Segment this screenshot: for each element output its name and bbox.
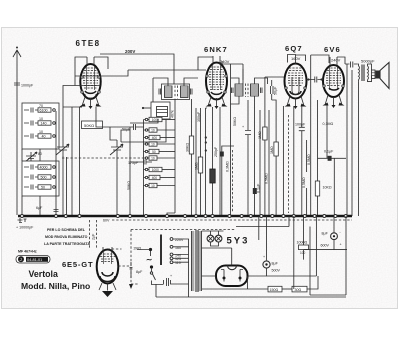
- svg-text:600V: 600V: [321, 244, 330, 248]
- wire right verticals below bus: [294, 216, 317, 289]
- T1 secondary coil: [181, 86, 189, 98]
- svg-text:0,5MΩ: 0,5MΩ: [307, 154, 311, 165]
- svg-text:MF 467×Hz: MF 467×Hz: [18, 250, 37, 254]
- capacitor/resistor row 10: [24, 121, 38, 126]
- wire x293.8: [293, 106, 295, 215]
- wire T1 leads: [153, 78, 198, 86]
- svg-text:50μF: 50μF: [274, 86, 278, 95]
- dashed wire x288.5: [288, 115, 290, 213]
- svg-text:04-81-01: 04-81-01: [27, 258, 42, 262]
- svg-text:0,3MΩ: 0,3MΩ: [226, 161, 230, 172]
- tube V3 base pins: [287, 96, 304, 107]
- svg-text:400: 400: [152, 176, 158, 180]
- svg-text:8μF: 8μF: [322, 232, 329, 236]
- wire x221 capacitor square: [222, 146, 234, 215]
- T2 core: [246, 84, 249, 98]
- svg-text:6E5-GT: 6E5-GT: [62, 260, 93, 269]
- dashed wire x232: [232, 150, 234, 213]
- svg-text:6NK7: 6NK7: [204, 45, 228, 54]
- svg-text:PER LO SCHEMA DEL: PER LO SCHEMA DEL: [47, 228, 86, 232]
- dashed gang link: [62, 157, 143, 159]
- svg-text:0,5MΩ: 0,5MΩ: [302, 177, 306, 188]
- svg-text:+: +: [170, 274, 172, 278]
- wire switch rail: [55, 111, 58, 215]
- capacitor/resistor row 4000: [24, 165, 38, 170]
- dashed mains box: [131, 230, 236, 285]
- resistor ladder row 10 y185.5: [145, 184, 147, 186]
- band switch coil box lower: [22, 161, 59, 196]
- svg-text:100pF: 100pF: [295, 123, 306, 127]
- svg-text:250pF: 250pF: [214, 146, 218, 157]
- tube V1 internals: [83, 68, 98, 88]
- svg-text:50KΩ: 50KΩ: [84, 123, 94, 128]
- tuning gang section 1: [56, 143, 69, 157]
- junction dot: [149, 248, 152, 251]
- ground symbol left: [18, 218, 27, 223]
- wire 50pF node: [110, 127, 130, 215]
- tube V5 6E5-GT envelope: [97, 250, 119, 284]
- filter capacitor 8uF 500V: [263, 261, 270, 268]
- wire left outer: [16, 125, 18, 215]
- wire V1 grid to gang: [96, 107, 117, 140]
- oscillator coil box: [151, 102, 170, 119]
- wire x301.8 with capacitor 100pF: [299, 106, 305, 215]
- tube V1 base pins: [82, 97, 99, 107]
- svg-text:4000: 4000: [40, 166, 48, 170]
- wire V1 pin down: [63, 107, 82, 215]
- dashed box arrow: [129, 284, 133, 289]
- bus junction circles: [21, 215, 24, 218]
- V6 top dimple: [228, 266, 237, 270]
- wire V2 top: [198, 57, 222, 70]
- svg-text:LA PARTE TRATTEGGIATA: LA PARTE TRATTEGGIATA: [44, 242, 90, 246]
- output transformer primary: [358, 66, 361, 80]
- bottom long wire: [156, 296, 346, 298]
- antenna: [16, 57, 18, 125]
- tube V3 6Q7 envelope: [285, 64, 307, 99]
- capacitor 175pF: [144, 160, 146, 165]
- svg-text:MOD RNOVA ELIMINATO: MOD RNOVA ELIMINATO: [45, 235, 88, 239]
- svg-text:J: J: [20, 257, 22, 262]
- svg-text:0,1MΩ: 0,1MΩ: [323, 122, 334, 126]
- svg-text:60V: 60V: [103, 219, 110, 223]
- pilot lamp 1: [207, 235, 214, 242]
- resistor 150 Ohm: [202, 276, 268, 289]
- svg-text:50: 50: [152, 150, 156, 154]
- svg-text:10: 10: [151, 128, 155, 132]
- T1 trim capacitors: [159, 89, 192, 95]
- tube V2 6NK7 envelope: [206, 63, 227, 100]
- svg-text:500V: 500V: [272, 269, 281, 273]
- wire x196: [195, 108, 197, 215]
- wire x260: [259, 110, 261, 215]
- svg-text:30Ω: 30Ω: [295, 288, 302, 292]
- T1 core: [175, 86, 178, 99]
- resistor ladder row 50 y151.5: [145, 150, 147, 152]
- svg-text:10: 10: [39, 130, 43, 134]
- tube V4 base pins: [325, 95, 342, 106]
- wire ladder left rail: [144, 120, 146, 216]
- wire x205.5: [206, 108, 208, 215]
- wire 50uF down: [272, 100, 276, 215]
- wire 240V drop to V2: [219, 64, 243, 215]
- svg-text:5Y3: 5Y3: [227, 236, 250, 247]
- svg-text:1MΩ: 1MΩ: [194, 162, 198, 170]
- V6 internals: [221, 270, 243, 282]
- wire x312: [310, 55, 312, 215]
- svg-text:+: +: [242, 125, 244, 129]
- tube V1 6TE8 envelope: [80, 64, 100, 99]
- wire 175pF node: [130, 161, 152, 163]
- wire x200.5 with resistor 1M: [200, 108, 202, 215]
- right side vertical wires: [347, 64, 359, 216]
- svg-text:1MΩ: 1MΩ: [258, 131, 262, 139]
- svg-text:1000Ω: 1000Ω: [297, 241, 308, 245]
- wire T2 leads: [231, 69, 268, 84]
- svg-text:+ 10000pF: + 10000pF: [16, 226, 34, 230]
- svg-text:10: 10: [151, 156, 155, 160]
- primary feed wires: [187, 239, 189, 284]
- capacitor/resistor row 70: [24, 108, 38, 113]
- wire x212.5 with resistor: [212, 107, 214, 215]
- wire ladder right rail: [167, 99, 175, 215]
- T2 secondary coil: [251, 84, 259, 96]
- wire T2 secondary down: [254, 96, 256, 215]
- svg-text:400: 400: [152, 136, 158, 140]
- svg-text:10: 10: [151, 184, 155, 188]
- resistor ladder row 10 y144: [145, 143, 147, 145]
- wire x220: [219, 107, 221, 215]
- wire V1 cathode down: [80, 107, 83, 215]
- wire osc box down: [121, 78, 166, 142]
- capacitor 50pF: [128, 124, 144, 130]
- label 50kOhm: [82, 121, 103, 129]
- tube V5 base: [99, 283, 116, 291]
- svg-text:1000pF: 1000pF: [21, 84, 34, 88]
- coupling capacitor to 6V6 grid: [307, 77, 324, 83]
- wire x122 osc grid: [121, 130, 130, 142]
- lamp feed wire: [202, 231, 224, 246]
- wire x327: [326, 105, 328, 158]
- tube V2 base pins: [208, 97, 225, 107]
- capacitor/resistor row 500: [24, 175, 38, 180]
- variable capacitor trimmer: [25, 152, 37, 163]
- tube V4 internals: [326, 68, 341, 86]
- svg-text:240V: 240V: [220, 59, 230, 64]
- tube V5 internals: [100, 254, 115, 262]
- wire V4 top: [311, 55, 345, 64]
- wire V1 grid to gang1: [63, 86, 101, 216]
- svg-text:6Q7: 6Q7: [285, 44, 303, 53]
- wire x66: [66, 157, 68, 215]
- wire x306.6 resistor 0,5M: [306, 140, 308, 215]
- wire gang2 down: [116, 157, 118, 215]
- speaker voice coil: [372, 70, 376, 79]
- resistor ladder row 10 y130: [145, 129, 147, 131]
- svg-text:240V: 240V: [331, 58, 341, 63]
- svg-text:2μF: 2μF: [92, 233, 96, 240]
- resistor ladder row 1000 y169.5: [145, 168, 147, 170]
- mains switch: [152, 269, 164, 285]
- capacitor/resistor row 50: [24, 185, 38, 190]
- svg-text:10: 10: [151, 142, 155, 146]
- dashed boundary below bus: [112, 219, 352, 221]
- svg-text:+: +: [263, 255, 265, 259]
- svg-text:0,1μF: 0,1μF: [324, 150, 334, 154]
- rectifier V6 5Y3 envelope: [216, 266, 248, 287]
- tube V4 6V6 envelope: [323, 65, 344, 97]
- dashed wires to 6E5: [90, 220, 97, 248]
- tube V2 internals: [209, 67, 224, 90]
- tuning gang section 2: [110, 140, 123, 157]
- svg-text:6TE8: 6TE8: [76, 39, 101, 48]
- svg-text:30KΩ: 30KΩ: [185, 143, 189, 152]
- speaker cone: [380, 63, 389, 89]
- wire stub x258.8: [258, 216, 260, 240]
- svg-text:6V6: 6V6: [324, 45, 341, 54]
- svg-text:50: 50: [41, 186, 45, 190]
- svg-text:200V: 200V: [125, 49, 135, 54]
- tube V5 arrow: [102, 291, 113, 297]
- svg-text:50KΩ: 50KΩ: [233, 117, 237, 126]
- svg-text:8μF: 8μF: [272, 262, 279, 266]
- svg-text:6100: 6100: [40, 109, 48, 113]
- capacitor 8uF 600V: [331, 233, 338, 240]
- svg-text:Modd. Nilla, Pino: Modd. Nilla, Pino: [21, 281, 90, 291]
- wire x243 B+ drop: [242, 64, 244, 84]
- IF transformer T1 frame: [162, 84, 190, 100]
- wire x264 resistor 1M rotated: [265, 77, 284, 215]
- capacitor 0,1uF on x254: [253, 188, 257, 194]
- wire x248 with capacitor: [245, 100, 251, 215]
- dashed link V5 right: [108, 249, 132, 266]
- wire B+ 200V rail: [100, 54, 174, 84]
- ground bus: [18, 215, 352, 218]
- svg-text:6μF: 6μF: [36, 206, 43, 210]
- resistor ladder row 400 y177.5: [145, 176, 147, 178]
- svg-text:10: 10: [39, 117, 43, 121]
- tube V3 internals: [288, 68, 303, 86]
- capacitor 1000pF antenna: [14, 83, 20, 85]
- transformer core: [196, 230, 198, 292]
- logo badge: [16, 256, 50, 264]
- wire x334.3: [333, 158, 335, 215]
- wire V3 top: [288, 55, 306, 63]
- wire x191.5 with resistor 30k: [191, 99, 193, 215]
- svg-text:∼: ∼: [146, 255, 153, 264]
- svg-text:1000: 1000: [152, 168, 159, 172]
- junction dot 2: [150, 265, 153, 268]
- selector contacts: [170, 238, 173, 241]
- pilot lamp 2: [215, 235, 222, 242]
- speaker magnet: [376, 71, 381, 79]
- OPT leads: [358, 64, 372, 82]
- wire cap to bus: [266, 216, 268, 255]
- output transformer secondary: [367, 66, 370, 80]
- mains transformer primary winding: [191, 231, 193, 291]
- svg-text:1MΩ: 1MΩ: [270, 146, 274, 154]
- svg-text:150Ω: 150Ω: [270, 288, 279, 292]
- wire x269: [268, 110, 270, 215]
- electrolytic 50uF: [271, 80, 274, 100]
- V6 side leads: [202, 275, 267, 277]
- resistor ladder row 10 y158: [145, 157, 147, 159]
- PSU box wires: [267, 216, 347, 295]
- wire V1 top to rail: [75, 57, 108, 86]
- wire T2 primary down: [231, 96, 240, 104]
- IF transformer T2 primary coil: [235, 84, 243, 96]
- resistor 30 Ohm: [282, 288, 292, 290]
- svg-text:Vertola: Vertola: [29, 269, 58, 279]
- svg-text:500: 500: [41, 176, 47, 180]
- svg-text:0,5MΩ: 0,5MΩ: [265, 173, 269, 184]
- wire square-cap horizontal: [318, 157, 347, 159]
- V6 top lead: [202, 248, 232, 266]
- T2 trim capacitors: [232, 88, 263, 94]
- wire PSU top rail: [236, 216, 289, 227]
- svg-text:10KΩ: 10KΩ: [323, 186, 332, 190]
- resistor ladder row 400 y137.5: [145, 136, 147, 138]
- OPT core: [362, 65, 364, 82]
- T1 primary coil: [165, 86, 173, 98]
- svg-text:467k: 467k: [171, 110, 175, 118]
- wire left bank to bus: [22, 149, 40, 215]
- wire x318.8: [317, 100, 319, 215]
- svg-text:40: 40: [42, 135, 46, 139]
- wire V3 pin down: [282, 106, 284, 215]
- svg-text:8μF: 8μF: [136, 270, 143, 274]
- transformer secondary winding: [201, 231, 203, 291]
- svg-text:140: 140: [41, 122, 47, 126]
- svg-text:+: +: [340, 243, 342, 247]
- capacitor 0,1uF left: [130, 262, 133, 278]
- svg-text:5000pF: 5000pF: [361, 59, 375, 64]
- resistor ladder row 1000 y119.5: [145, 118, 147, 120]
- capacitor/resistor row 10b: [24, 134, 38, 139]
- capacitor 5000pF output: [345, 62, 357, 68]
- capacitor across mains: [164, 278, 189, 286]
- svg-text:70: 70: [39, 104, 43, 108]
- voltage selector bar: [160, 235, 162, 266]
- svg-text:100: 100: [300, 251, 306, 255]
- wire step to V1: [75, 70, 206, 76]
- band switch coil box upper: [22, 103, 59, 149]
